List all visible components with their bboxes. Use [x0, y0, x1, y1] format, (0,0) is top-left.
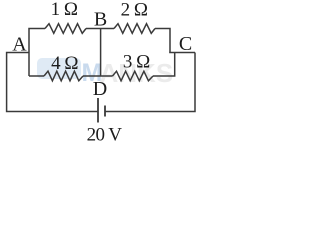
svg-text:20 V: 20 V — [87, 125, 123, 146]
svg-text:1 Ω: 1 Ω — [51, 0, 78, 20]
svg-text:C: C — [179, 33, 192, 55]
resistor R4 (4 ohm) — [44, 71, 83, 81]
watermark logo block — [37, 58, 81, 79]
wire: top rail segment through node B — [86, 28, 114, 30]
wire: right vertical and bottom-right rail — [105, 53, 195, 112]
battery 20 V: long plate — [97, 98, 99, 123]
wire: B to D vertical — [100, 29, 102, 77]
wire: node A stub, left vertical and bottom-left rail — [7, 53, 98, 112]
svg-text:4 Ω: 4 Ω — [51, 53, 78, 74]
wire: top rail to C riser — [155, 29, 170, 53]
wire: 4-ohm row lead from A riser — [29, 75, 44, 77]
wire: A riser and top-rail lead-in — [29, 29, 45, 77]
svg-text:B: B — [94, 8, 107, 30]
wire: row to C link — [153, 53, 175, 77]
wire: node C stub — [169, 52, 195, 54]
battery 20 V: short plate — [104, 106, 106, 117]
svg-text:2 Ω: 2 Ω — [121, 0, 148, 21]
svg-text:3 Ω: 3 Ω — [123, 52, 150, 73]
resistor R2 (2 ohm) — [114, 24, 155, 34]
svg-text:A: A — [12, 34, 27, 56]
resistor R3 (3 ohm) — [113, 71, 154, 81]
svg-text:D: D — [93, 78, 107, 100]
resistor R1 (1 ohm) — [45, 24, 86, 34]
wire: row segment through node D — [83, 75, 113, 77]
